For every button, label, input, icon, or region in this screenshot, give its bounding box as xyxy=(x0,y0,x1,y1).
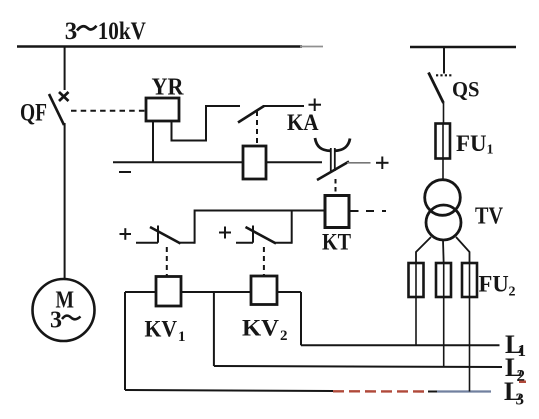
svg-text:KT: KT xyxy=(322,230,351,255)
svg-text:3: 3 xyxy=(50,308,62,334)
svg-text:1: 1 xyxy=(178,329,186,345)
svg-text:QF: QF xyxy=(20,100,47,127)
svg-text:10kV: 10kV xyxy=(98,18,146,45)
svg-text:2: 2 xyxy=(280,328,288,344)
svg-text:3: 3 xyxy=(516,390,525,409)
svg-text:FU: FU xyxy=(479,272,510,297)
svg-text:KA: KA xyxy=(287,110,319,135)
svg-text:QS: QS xyxy=(452,77,480,102)
svg-text:KV: KV xyxy=(242,316,279,341)
svg-text:YR: YR xyxy=(152,75,185,101)
svg-text:1: 1 xyxy=(487,143,494,158)
svg-text:KV: KV xyxy=(145,317,178,342)
svg-text:FU: FU xyxy=(456,131,487,156)
svg-text:2: 2 xyxy=(509,285,516,300)
svg-text:3: 3 xyxy=(65,18,78,45)
svg-text:TV: TV xyxy=(475,204,504,230)
